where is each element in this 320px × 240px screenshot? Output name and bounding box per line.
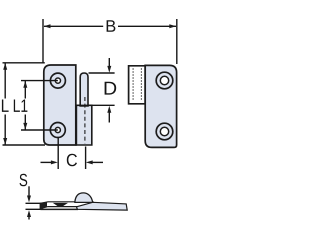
node L arrow up bbox=[3, 63, 7, 70]
side view lower surface line bbox=[41, 208, 79, 210]
right leaf bottom hole inner bbox=[160, 127, 168, 135]
node C label bbox=[67, 154, 77, 167]
wire B extension line left bbox=[42, 19, 44, 64]
node L dimension line bbox=[4, 63, 6, 144]
node D arrow up bbox=[107, 106, 111, 123]
right leaf top hole outer bbox=[156, 72, 173, 89]
node S arrow down bbox=[27, 186, 31, 202]
node L1 label bbox=[14, 100, 28, 112]
right leaf top hole inner bbox=[160, 76, 168, 84]
side view right leaf lower layer bbox=[77, 202, 128, 210]
node B arrow right bbox=[169, 24, 176, 28]
node L1 top extension line bbox=[21, 80, 58, 82]
left leaf bottom hole inner bbox=[55, 127, 60, 132]
node S bottom leader line bbox=[26, 208, 44, 210]
left leaf top hole inner bbox=[55, 78, 60, 83]
node S label bbox=[20, 174, 28, 187]
hinge pin bbox=[80, 73, 88, 106]
node C right extension line bbox=[85, 147, 87, 170]
node L1 arrow up bbox=[23, 81, 27, 88]
left hinge leaf plate bbox=[44, 65, 76, 145]
node D top line bbox=[89, 72, 115, 74]
node L arrow down bbox=[3, 138, 7, 145]
node D label bbox=[105, 82, 117, 95]
right hinge leaf plate bbox=[145, 65, 176, 147]
side view countersink section mark bbox=[53, 203, 68, 206]
wire B extension line right bbox=[176, 19, 178, 64]
pin hidden center line bbox=[84, 97, 86, 144]
right leaf socket knuckle bbox=[129, 66, 146, 104]
socket hidden line right bbox=[140, 68, 142, 101]
node L1 arrow down bbox=[23, 123, 27, 130]
node D arrow down bbox=[107, 58, 111, 73]
side view left leaf bar bbox=[40, 202, 93, 209]
left leaf top hole outer bbox=[50, 73, 65, 88]
side view bent left end section mark bbox=[40, 202, 47, 208]
node B arrow left bbox=[44, 24, 51, 28]
left leaf bottom hole outer bbox=[50, 123, 65, 138]
node S arrow up bbox=[27, 210, 31, 219]
node B label bbox=[107, 20, 116, 32]
node L top extension line bbox=[3, 62, 45, 64]
node B dimension line bbox=[44, 25, 176, 27]
node C arrow right bbox=[86, 160, 103, 164]
node L1 bottom extension line bbox=[21, 129, 58, 131]
node C arrow left bbox=[41, 160, 58, 164]
node C left extension line bbox=[57, 137, 59, 169]
node L bottom extension line bbox=[3, 144, 46, 146]
left leaf barrel knuckle bbox=[76, 105, 91, 145]
socket hidden line left bbox=[132, 68, 134, 101]
node L label bbox=[2, 100, 9, 112]
node L1 dimension line bbox=[24, 81, 26, 130]
node S top leader line bbox=[26, 202, 44, 204]
side view knuckle dome bbox=[75, 193, 93, 203]
node D bottom line bbox=[76, 104, 114, 106]
right leaf bottom hole outer bbox=[156, 123, 173, 140]
